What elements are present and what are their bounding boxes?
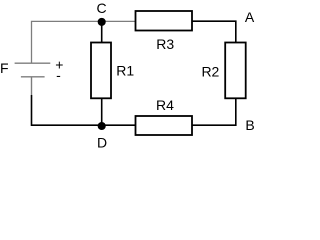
wire: battery negative lead down to bottom-left corner and right to node D and R4 (black) [32,95,136,125]
wire: R4 right to node B corner, up to R2 bottom [192,98,236,125]
resistor R1 [91,43,111,99]
battery F [15,63,51,95]
wire: R1 bottom down to node D [101,98,103,125]
svg-text:R4: R4 [156,97,174,113]
resistor R2 [225,43,246,99]
wire: node C down to R1 top [101,21,103,42]
wire: battery top lead up-left then right to node C and R3 (gray) [32,21,136,63]
node C junction dot [98,18,106,26]
wire: R3 right to node A corner, down to R2 top [192,21,236,42]
svg-text:R2: R2 [201,64,219,80]
svg-text:B: B [245,117,254,133]
svg-text:R1: R1 [116,62,134,78]
svg-text:-: - [56,67,61,83]
svg-text:D: D [97,135,107,148]
svg-text:F: F [0,60,9,76]
resistor R3 [136,11,193,31]
resistor R4 [136,116,193,135]
svg-text:R3: R3 [156,36,174,52]
svg-text:A: A [245,9,255,25]
node D junction dot [98,122,106,130]
svg-text:C: C [96,0,106,16]
